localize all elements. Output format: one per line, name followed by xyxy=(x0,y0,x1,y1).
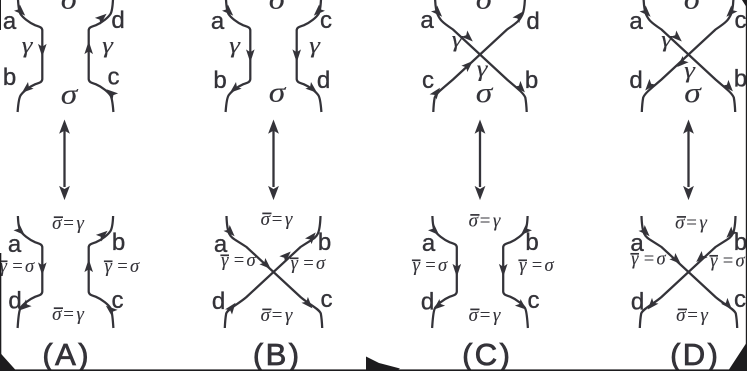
svg-text:c: c xyxy=(735,7,747,34)
panel D double arrow upper head xyxy=(683,120,694,134)
svg-text:=: = xyxy=(686,305,699,326)
svg-text:γ: γ xyxy=(22,33,34,59)
panel B bottom arrowhead entering at d xyxy=(225,303,235,315)
svg-text:c: c xyxy=(112,287,124,314)
panel D bottom strand b-to-d crossing xyxy=(640,216,736,328)
svg-text:(D): (D) xyxy=(670,337,720,371)
panel B double arrow lower head xyxy=(268,186,279,200)
panel B bottom arrowhead exiting at b xyxy=(305,232,316,244)
svg-text:=: = xyxy=(270,305,283,326)
svg-text:σ: σ xyxy=(676,305,686,326)
panel B bottom sigmabar=gamma upper overbar xyxy=(262,212,271,214)
svg-text:σ: σ xyxy=(469,211,479,232)
svg-text:γ: γ xyxy=(477,56,489,82)
panel A bottom sigmabar=gamma lower overbar xyxy=(54,307,63,309)
panel A double arrow lower head xyxy=(59,186,70,200)
svg-text:=: = xyxy=(643,250,655,270)
svg-text:γ: γ xyxy=(309,33,321,59)
svg-text:γ: γ xyxy=(105,257,113,277)
svg-text:σ: σ xyxy=(61,79,79,111)
panel C bottom left strand a-to-d xyxy=(432,216,457,328)
svg-text:a: a xyxy=(420,7,434,34)
panel C bottom arrowhead entering at b xyxy=(521,224,532,235)
svg-text:γ: γ xyxy=(700,305,708,326)
panel A bottom gammabar=sigma right overbar xyxy=(104,260,113,262)
panel D bottom strand a-to-c crossing xyxy=(642,216,738,328)
svg-text:γ: γ xyxy=(76,304,84,325)
scan artifact left edge line lower xyxy=(0,253,1,371)
panel B top right strand c-to-d xyxy=(297,0,322,112)
svg-text:γ: γ xyxy=(285,209,293,230)
panel A top arrowhead entering at a xyxy=(14,5,25,16)
panel A double arrow shaft xyxy=(63,131,65,188)
panel D bottom arrowhead entering at b xyxy=(726,227,737,238)
svg-text:d: d xyxy=(317,67,330,94)
panel D bottom gammabar=sigma left overbar xyxy=(630,253,639,255)
svg-text:d: d xyxy=(526,8,539,35)
scan artifact bottom-right corner wedge xyxy=(728,342,747,371)
svg-text:b: b xyxy=(112,229,125,256)
panel B bottom gammabar=sigma left overbar xyxy=(220,254,229,256)
svg-text:σ: σ xyxy=(735,252,745,272)
panel C bottom arrowhead entering at a xyxy=(428,224,439,235)
svg-text:c: c xyxy=(321,286,333,313)
svg-text:a: a xyxy=(629,8,643,35)
panel B bottom arrowhead before crossing down-right xyxy=(259,258,270,269)
panel B top arrowhead entering at a xyxy=(222,5,233,16)
panel D bottom arrowhead exiting at d xyxy=(648,298,659,310)
panel C top arrowhead exiting at d xyxy=(513,11,524,23)
svg-text:=: = xyxy=(424,256,436,276)
svg-text:d: d xyxy=(212,288,225,315)
svg-text:γ: γ xyxy=(452,27,464,53)
panel C double arrow lower head xyxy=(475,186,486,200)
svg-text:γ: γ xyxy=(413,256,421,276)
scan artifact right edge line xyxy=(746,0,747,371)
svg-text:c: c xyxy=(108,64,120,91)
panel A bottom arrowhead entering at c xyxy=(106,306,118,317)
svg-text:σ: σ xyxy=(316,254,326,274)
svg-text:b: b xyxy=(734,66,747,93)
svg-text:c: c xyxy=(422,67,434,94)
panel C double arrow shaft xyxy=(479,131,481,188)
svg-text:c: c xyxy=(320,7,332,34)
panel A bottom arrowhead entering at a xyxy=(14,224,25,235)
panel C double arrow upper head xyxy=(475,120,486,134)
panel A top arrowhead exiting at d xyxy=(95,14,107,25)
svg-text:d: d xyxy=(421,289,434,316)
panel C top arrowhead before crossing down-right xyxy=(461,31,472,42)
panel C bottom sigmabar=gamma upper overbar xyxy=(470,214,479,216)
panel D bottom arrowhead entering at a xyxy=(639,225,650,236)
panel A bottom right strand c-to-b xyxy=(89,216,114,328)
svg-text:γ: γ xyxy=(285,305,293,326)
svg-text:c: c xyxy=(528,287,540,314)
panel C bottom sigmabar=gamma lower overbar xyxy=(470,308,479,310)
panel D top arrowhead exiting at d xyxy=(645,79,656,91)
panel A bottom gammabar=sigma left overbar xyxy=(0,260,8,262)
panel B bottom gammabar=sigma right overbar xyxy=(290,257,299,259)
svg-text:γ: γ xyxy=(710,252,718,272)
panel D top arrowhead entering at a xyxy=(640,6,651,17)
svg-text:γ: γ xyxy=(493,211,501,232)
svg-text:σ: σ xyxy=(52,304,62,325)
svg-text:σ: σ xyxy=(269,77,287,109)
panel C bottom gammabar=sigma right overbar xyxy=(518,259,527,261)
svg-text:(B): (B) xyxy=(253,337,302,371)
panel C top arrowhead entering at a xyxy=(431,6,442,17)
panel B bottom arrowhead after crossing up-right xyxy=(279,252,290,263)
svg-text:a: a xyxy=(3,8,17,35)
panel A top arrowhead right rail up xyxy=(84,41,93,54)
svg-text:a: a xyxy=(422,230,436,257)
svg-text:σ: σ xyxy=(675,213,685,234)
panel C bottom right strand b-to-c xyxy=(503,216,528,328)
panel D top strand c-to-d crossing xyxy=(642,0,734,112)
svg-text:γ: γ xyxy=(519,256,527,276)
panel C top arrowhead exiting at b xyxy=(514,81,525,93)
svg-text:a: a xyxy=(8,231,22,258)
svg-text:σ: σ xyxy=(476,0,494,16)
svg-text:γ: γ xyxy=(76,213,84,234)
panel A bottom arrowhead exiting at d xyxy=(20,300,32,311)
svg-text:γ: γ xyxy=(221,251,229,271)
panel D top arrowhead after crossing down-left xyxy=(677,56,688,67)
panel B top arrowhead exiting at b xyxy=(230,82,242,93)
panel A bottom arrowhead left rail down xyxy=(38,262,47,275)
svg-text:=: = xyxy=(478,305,491,326)
panel D double arrow shaft xyxy=(687,131,689,188)
svg-text:=: = xyxy=(270,209,283,230)
panel A double arrow upper head xyxy=(59,120,70,134)
panel B top arrowhead entering at c xyxy=(314,5,325,16)
svg-text:γ: γ xyxy=(291,254,299,274)
svg-text:γ: γ xyxy=(631,250,639,270)
panel A bottom arrowhead exiting at b xyxy=(96,231,108,242)
svg-text:b: b xyxy=(213,67,226,94)
panel B top arrowhead exiting at d xyxy=(305,82,317,93)
svg-text:σ: σ xyxy=(438,256,448,276)
panel A bottom sigmabar=gamma upper overbar xyxy=(54,216,63,218)
svg-text:γ: γ xyxy=(684,58,696,84)
svg-text:σ: σ xyxy=(261,209,271,230)
panel A top arrowhead left rail down xyxy=(38,44,47,57)
panel B bottom strand a-to-c crossing xyxy=(227,216,323,328)
panel D top arrowhead exiting at b xyxy=(722,80,733,92)
svg-text:b: b xyxy=(3,64,16,91)
panel A bottom left strand a-to-d xyxy=(18,216,43,328)
svg-text:σ: σ xyxy=(269,0,287,16)
svg-text:d: d xyxy=(629,67,642,94)
panel B top left strand a-to-b xyxy=(226,0,251,112)
panel C bottom arrowhead left rail down xyxy=(453,264,462,277)
panel C top arrowhead entering at c xyxy=(430,88,440,100)
scan artifact left edge line upper xyxy=(0,0,1,30)
svg-text:=: = xyxy=(302,254,314,274)
panel A bottom arrowhead right rail up xyxy=(84,259,93,272)
svg-text:=: = xyxy=(62,213,75,234)
panel B double arrow shaft xyxy=(272,131,274,188)
svg-text:a: a xyxy=(211,8,225,35)
scan artifact bottom-left corner wedge xyxy=(0,353,17,371)
svg-text:σ: σ xyxy=(544,256,554,276)
svg-text:σ: σ xyxy=(25,257,35,277)
panel D bottom arrowhead before crossing down-right xyxy=(669,253,680,264)
panel A top right strand c-to-d xyxy=(89,0,114,112)
svg-text:b: b xyxy=(525,229,538,256)
svg-text:d: d xyxy=(8,288,21,315)
panel C bottom arrowhead right rail down xyxy=(499,264,508,277)
panel B bottom arrowhead entering at a xyxy=(224,225,235,236)
panel D double arrow lower head xyxy=(683,186,694,200)
svg-text:(C): (C) xyxy=(462,337,512,371)
svg-text:γ: γ xyxy=(661,27,673,53)
panel C bottom arrowhead exiting at d xyxy=(433,299,445,310)
panel D bottom arrowhead exiting at c xyxy=(721,298,732,310)
svg-text:d: d xyxy=(631,289,644,316)
svg-text:σ: σ xyxy=(61,0,79,16)
svg-text:σ: σ xyxy=(246,251,256,271)
panel D top arrowhead entering at c xyxy=(726,6,737,17)
svg-text:=: = xyxy=(233,251,245,271)
panel C bottom arrowhead exiting at c xyxy=(515,299,527,310)
svg-text:=: = xyxy=(685,213,698,234)
panel A top left strand a-to-b xyxy=(18,0,43,112)
svg-text:σ: σ xyxy=(130,257,140,277)
svg-text:γ: γ xyxy=(493,305,501,326)
panel D top arrowhead before crossing down-right xyxy=(670,31,681,42)
panel A top arrowhead entering at c xyxy=(106,89,118,100)
svg-text:=: = xyxy=(11,257,23,277)
panel D bottom gammabar=sigma right overbar xyxy=(709,255,718,257)
panel B top arrowhead left rail down xyxy=(246,49,255,62)
scan artifact bottom-center wedge xyxy=(366,357,400,371)
panel B bottom arrowhead exiting at c xyxy=(302,297,313,309)
panel D bottom sigmabar=gamma upper overbar xyxy=(677,216,686,218)
scan artifact top-right corner wedge xyxy=(742,0,747,8)
svg-text:=: = xyxy=(62,304,75,325)
panel A top arrowhead exiting at b xyxy=(22,82,34,93)
panel B bottom sigmabar=gamma lower overbar xyxy=(262,308,271,310)
svg-text:(A): (A) xyxy=(42,337,91,371)
panel C top arrowhead after crossing up-right xyxy=(461,61,472,72)
svg-text:σ: σ xyxy=(684,0,702,16)
panel D bottom sigmabar=gamma lower overbar xyxy=(678,308,687,310)
svg-text:b: b xyxy=(318,229,331,256)
panel B top arrowhead right rail down xyxy=(292,49,301,62)
panel B double arrow upper head xyxy=(268,120,279,134)
panel D bottom arrowhead after crossing down-left xyxy=(696,251,707,262)
panel C top strand c-to-d crossing xyxy=(433,0,525,112)
panel B bottom strand d-to-b crossing xyxy=(225,216,321,328)
svg-text:γ: γ xyxy=(699,213,707,234)
svg-text:c: c xyxy=(734,286,746,313)
svg-text:=: = xyxy=(722,252,734,272)
svg-text:σ: σ xyxy=(469,305,479,326)
svg-text:σ: σ xyxy=(261,305,271,326)
svg-text:=: = xyxy=(478,211,491,232)
scan artifact bottom edge line xyxy=(0,369,747,371)
svg-text:σ: σ xyxy=(52,213,62,234)
svg-text:d: d xyxy=(111,7,124,34)
svg-text:σ: σ xyxy=(656,250,666,270)
svg-text:γ: γ xyxy=(229,33,241,59)
svg-text:=: = xyxy=(116,257,128,277)
svg-text:=: = xyxy=(531,256,543,276)
panel C top strand a-to-b crossing xyxy=(435,0,527,112)
svg-text:γ: γ xyxy=(102,33,114,59)
panel C bottom gammabar=sigma left overbar xyxy=(412,259,421,261)
svg-text:b: b xyxy=(525,67,538,94)
panel D top strand a-to-b crossing xyxy=(644,0,736,112)
